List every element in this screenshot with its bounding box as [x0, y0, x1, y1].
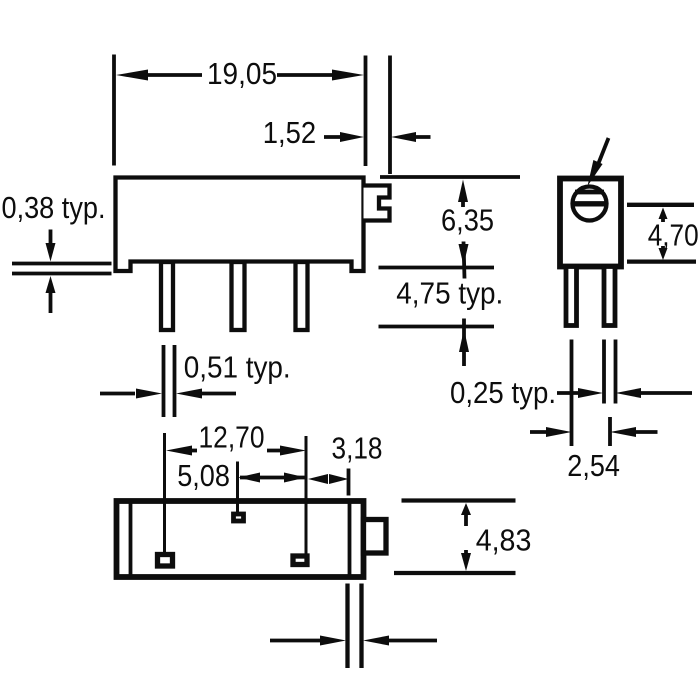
slot width dimension line right segment — [387, 639, 437, 643]
arrowhead 1,52 left — [340, 132, 364, 142]
svg-text:3,18: 3,18 — [332, 431, 383, 466]
0,38 up arrowhead — [46, 276, 56, 293]
extension line right of 19,05 — [364, 56, 368, 167]
slot width extension line right — [359, 584, 363, 669]
leader line pin 3 — [305, 436, 308, 554]
svg-text:0,25 typ.: 0,25 typ. — [450, 375, 556, 410]
4,70 bottom reference line — [627, 259, 696, 263]
extension line left pin center — [570, 340, 574, 447]
bottom view adjuster tab — [364, 520, 387, 554]
extension line right pin right edge — [614, 340, 618, 404]
dimension line 1,52 left segment — [324, 135, 344, 139]
svg-text:6,35: 6,35 — [441, 202, 494, 237]
extension stub right pin center — [608, 417, 612, 446]
arrowhead 0,51 left — [136, 389, 162, 399]
end view screw head circle — [573, 187, 607, 221]
4,75 bottom reference line — [379, 325, 495, 329]
dimension line 1,52 right segment — [414, 135, 431, 139]
4,83 top reference line — [402, 498, 516, 502]
4,83 down arrowhead — [461, 553, 471, 571]
dimension line 0,51 left segment — [100, 392, 135, 396]
dimension line 2,54 right segment — [634, 430, 658, 434]
4,75 arrow stem through line — [462, 319, 466, 367]
screw slot upper line — [575, 190, 604, 195]
arrowhead 2,54 left — [546, 427, 572, 437]
end view pin 1 — [566, 267, 577, 326]
svg-text:19,05: 19,05 — [207, 56, 277, 91]
svg-text:0,38 typ.: 0,38 typ. — [2, 190, 106, 225]
0,38 down arrow stem — [49, 230, 53, 251]
svg-text:4,83: 4,83 — [476, 523, 532, 558]
side view pin 3 — [296, 262, 308, 330]
slot width dimension line left segment — [270, 639, 325, 643]
dimension line 0,25 right segment — [639, 391, 692, 395]
4,70 up arrow stem — [661, 216, 665, 222]
svg-text:5,08: 5,08 — [177, 458, 230, 493]
bottom view body — [117, 501, 364, 577]
arrowhead 0,51 right — [176, 389, 202, 399]
arrowhead 19,05 left — [116, 70, 148, 81]
adjustment pointer arrowhead — [588, 160, 603, 186]
slot width arrowhead right — [363, 636, 389, 646]
extension line right of 1,52 — [388, 56, 392, 175]
extension line left of 19,05 — [112, 55, 116, 166]
side view slot notch — [364, 186, 390, 221]
0,51 extension line right — [173, 345, 177, 417]
4,83 bottom reference line — [394, 571, 516, 575]
arrowhead 12,70 left — [166, 446, 192, 456]
4,75 up arrowhead — [459, 329, 469, 352]
arrowhead 1,52 right — [391, 132, 416, 142]
0,38 lower reference line — [12, 272, 112, 276]
4,70 down arrow stem — [661, 246, 665, 252]
bottom view inner left line — [129, 504, 133, 575]
arrowhead 2,54 right — [610, 427, 636, 437]
screw slot lower line — [572, 201, 608, 206]
arrowhead 3,18 right — [329, 474, 349, 484]
svg-text:12,70: 12,70 — [199, 420, 265, 455]
dimension line 19,05 right segment — [277, 73, 335, 77]
4,83 up arrowhead — [461, 503, 471, 515]
6,35 up arrow stem — [461, 198, 465, 207]
0,38 upper reference line — [12, 262, 112, 266]
4,83 down arrow stem — [464, 550, 468, 556]
arrowhead 0,25 right — [616, 388, 642, 398]
arrowhead 5,08 left — [238, 473, 260, 483]
bottom view inner right line — [348, 504, 352, 575]
leader line pin 1 — [163, 433, 166, 552]
dimension line 12,70 right segment — [267, 449, 284, 453]
side view body — [116, 178, 364, 272]
dimension line 0,25 left segment — [557, 391, 580, 395]
arrowhead 3,18 left — [308, 474, 328, 484]
svg-text:1,52: 1,52 — [263, 115, 316, 150]
6,35 up arrowhead — [458, 180, 468, 203]
4,70 up arrowhead — [659, 208, 668, 220]
dimension line 19,05 left segment — [145, 73, 202, 77]
arrowhead 5,08 right — [284, 473, 306, 483]
leader line center pin — [236, 462, 239, 513]
side view pin 2 — [232, 262, 245, 330]
dimension line 2,54 left segment — [530, 430, 548, 434]
arrowhead 0,25 left — [578, 388, 603, 398]
pad pin 3 — [293, 556, 307, 565]
extension line right pin left edge — [602, 340, 606, 404]
pad pin 1 — [158, 555, 173, 567]
dimension line 0,51 right segment — [200, 392, 236, 396]
4,83 up arrow stem — [464, 512, 468, 526]
6,35 top reference line — [380, 175, 520, 179]
slot width extension line left — [345, 584, 349, 669]
4,70 down arrowhead — [659, 248, 668, 260]
end view pin 2 — [604, 267, 615, 326]
end view body — [560, 179, 621, 267]
arrowhead 12,70 right — [280, 446, 306, 456]
6,35 bottom reference line — [379, 266, 495, 270]
adjustment pointer arrow shaft — [597, 138, 609, 167]
0,51 extension line left — [162, 345, 166, 417]
dimension line 12,70 left segment — [190, 449, 197, 453]
side view pin 1 — [161, 262, 173, 330]
svg-text:0,51 typ.: 0,51 typ. — [184, 350, 291, 385]
6,35 down arrowhead — [459, 244, 469, 266]
pad center pin — [234, 514, 244, 521]
0,38 up arrow stem — [49, 290, 53, 313]
svg-text:4,75 typ.: 4,75 typ. — [396, 276, 503, 311]
4,70 top reference line — [627, 203, 694, 207]
0,38 down arrowhead — [46, 243, 56, 262]
svg-text:4,70: 4,70 — [648, 217, 699, 252]
arrowhead 19,05 right — [332, 70, 364, 81]
3,18 extension line — [347, 469, 351, 496]
6,35 down arrow stem — [464, 242, 465, 279]
slot width arrowhead left — [320, 636, 346, 646]
dimension line 5,08 — [240, 476, 305, 480]
svg-text:2,54: 2,54 — [567, 448, 620, 483]
